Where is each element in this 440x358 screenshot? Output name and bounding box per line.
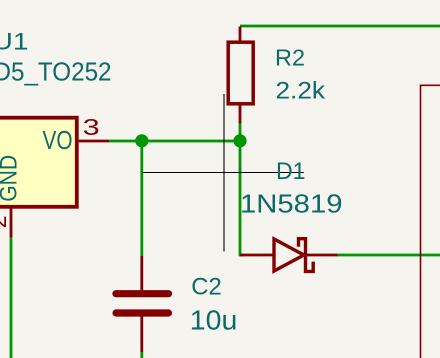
- svg-text:10u: 10u: [190, 305, 238, 336]
- resistor R2 body: [228, 42, 253, 104]
- svg-text:R2: R2: [275, 44, 305, 70]
- wire: C2 bottom short green to bottom edge: [140, 352, 143, 358]
- wire: vertical from junction B down to diode corner: [240, 140, 243, 255]
- svg-text:D5_TO252: D5_TO252: [0, 56, 112, 86]
- pin 2 stub: [10, 207, 13, 238]
- wire: pin 2 down to bottom edge: [10, 238, 13, 358]
- wire: main horizontal VO net: [109, 140, 240, 143]
- capacitor C2 top pin stub: [140, 256, 143, 290]
- thin graphic line horizontal: [142, 172, 303, 174]
- wire: diode output to right edge: [338, 254, 440, 257]
- right component box edge (off-canvas symbol): [421, 85, 440, 358]
- regulator U1 body: [0, 118, 77, 207]
- capacitor C2 bottom plate: [116, 309, 169, 316]
- R2 bottom pin stub: [239, 104, 242, 124]
- capacitor C2 top plate: [116, 290, 169, 297]
- svg-text:U1: U1: [0, 29, 29, 56]
- wire: vertical from junction A down to C2: [140, 141, 143, 257]
- diode D1 left pin: [240, 254, 273, 257]
- svg-text:2: 2: [0, 216, 11, 229]
- R2 top pin stub: [239, 27, 242, 43]
- svg-text:1N5819: 1N5819: [240, 189, 343, 219]
- svg-text:GND: GND: [0, 155, 23, 202]
- thin graphic line vertical: [223, 94, 225, 252]
- svg-text:3: 3: [83, 115, 100, 141]
- wire: R2 bottom short green: [239, 123, 242, 141]
- pin 3 stub: [79, 140, 109, 143]
- svg-text:2.2k: 2.2k: [276, 78, 327, 105]
- wire: top horizontal from R2 to right edge: [240, 25, 440, 28]
- diode D1 right pin: [307, 254, 338, 257]
- svg-text:D1: D1: [276, 158, 306, 185]
- junction A: [135, 134, 148, 147]
- pin number 3: [83, 115, 100, 141]
- svg-text:C2: C2: [191, 273, 222, 300]
- capacitor C2 bottom pin stub: [140, 317, 143, 353]
- svg-text:VO: VO: [43, 125, 73, 155]
- junction B: [233, 134, 246, 147]
- diode D1 schottky cathode bar: [299, 239, 314, 272]
- diode D1 triangle: [274, 239, 304, 271]
